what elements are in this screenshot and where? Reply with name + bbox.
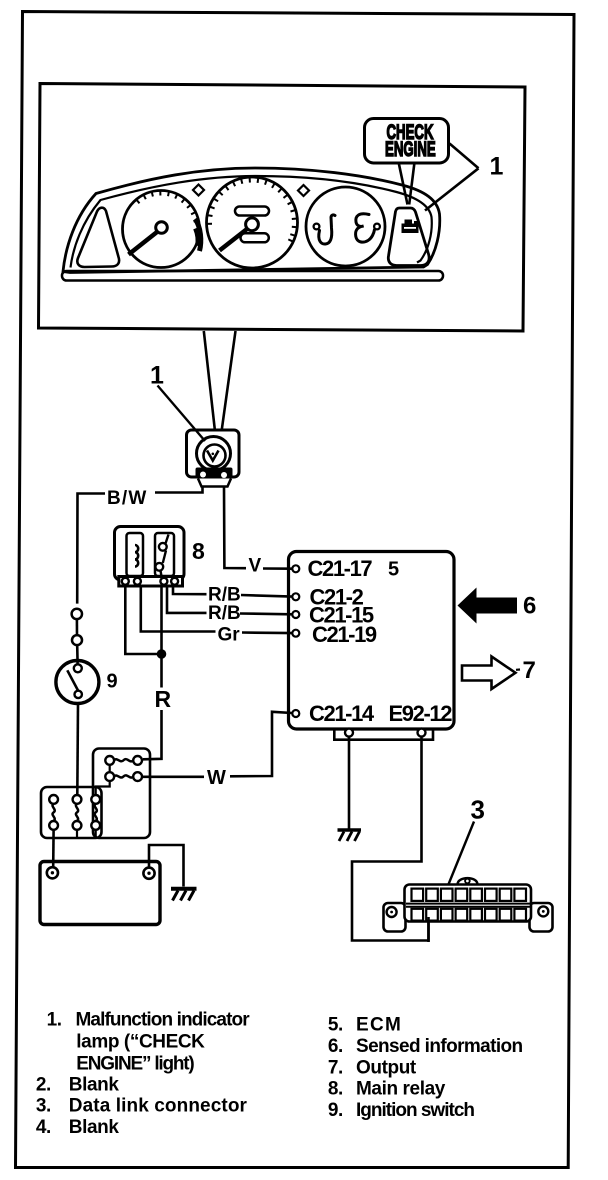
svg-text:Sensed information: Sensed information (356, 1036, 523, 1057)
svg-text:W: W (207, 767, 226, 789)
ground symbol (171, 887, 197, 891)
funnel from cluster box to lamp (204, 331, 215, 430)
svg-text:6: 6 (523, 593, 536, 620)
svg-text:1: 1 (150, 362, 164, 390)
wire ECM left terminal to ground (348, 737, 351, 829)
svg-text:7: 7 (523, 657, 536, 684)
cluster housing outer outline (63, 168, 440, 273)
wire lamp left to B/W (155, 487, 203, 493)
svg-text:Main relay: Main relay (356, 1079, 446, 1100)
svg-text:C21-17: C21-17 (308, 556, 373, 581)
wire switch to fusible link B (76, 704, 79, 796)
warning diamond right (298, 185, 309, 196)
lamp bulb (197, 437, 231, 471)
svg-text:3.: 3. (36, 1096, 51, 1117)
svg-text:8.: 8. (328, 1079, 343, 1100)
inline connector (72, 635, 82, 645)
WIRING2 (40, 552, 553, 943)
svg-text:5.: 5. (328, 1015, 343, 1036)
data link connector J1 (458, 878, 478, 884)
pin C21-2 (292, 593, 299, 600)
battery BT1 (40, 862, 160, 925)
CHECKLABEL (365, 119, 504, 211)
CLUSTER (62, 168, 443, 281)
svg-text:Ignition switch: Ignition switch (356, 1100, 474, 1121)
callout pointer legs (399, 164, 408, 205)
WIRING (56, 331, 292, 795)
svg-text:ENGINE” light): ENGINE” light) (76, 1054, 194, 1075)
svg-text:1.: 1. (47, 1010, 62, 1031)
svg-text:lamp (“CHECK: lamp (“CHECK (76, 1032, 205, 1053)
svg-text:1: 1 (490, 153, 504, 181)
svg-text:5: 5 (388, 559, 399, 581)
wire link B stub (76, 830, 78, 838)
svg-text:3: 3 (471, 795, 485, 825)
wire link C stub (95, 830, 97, 838)
ECM bottom flange (334, 729, 433, 740)
wire relay t2 to Gr (141, 586, 216, 632)
leader line lower to 1 (425, 168, 479, 210)
relay terminal flange (119, 577, 183, 587)
wire (76, 619, 79, 635)
wire Gr to pin C21-19 (242, 631, 292, 634)
fusible link box right (93, 749, 150, 839)
svg-text:2.: 2. (36, 1075, 51, 1096)
lamp socket (196, 468, 233, 479)
wire W to pin C21-14 (230, 712, 292, 777)
wire relay t3 through junction to R (160, 586, 163, 688)
tachometer needle (129, 232, 158, 255)
wire R to fusible link (143, 710, 162, 759)
LEGEND (36, 1010, 523, 1139)
svg-text:Blank: Blank (69, 1117, 120, 1138)
fuel band crescent (195, 219, 201, 251)
wire link A to battery (52, 830, 55, 867)
fuel icon (314, 224, 320, 230)
sensed information arrow (458, 588, 518, 624)
CHECK ENGINE callout box (365, 119, 449, 164)
svg-text:E92-12: E92-12 (389, 701, 453, 726)
fuel-temp gauge dial (306, 187, 385, 266)
svg-text:Output: Output (356, 1057, 417, 1078)
fusible link A (49, 795, 58, 804)
svg-text:7.: 7. (328, 1057, 343, 1078)
fusible link F1 (105, 756, 114, 765)
svg-text:Data link connector: Data link connector (69, 1096, 248, 1117)
malfunction indicator lamp U1 box (187, 430, 240, 477)
ECM U5 box (289, 552, 455, 730)
tachometer dial (123, 191, 200, 268)
svg-text:ECM: ECM (356, 1015, 402, 1036)
speedometer hub (246, 218, 259, 231)
svg-text:Gr: Gr (218, 625, 241, 646)
svg-text:9.: 9. (328, 1100, 343, 1121)
cluster housing inner outline (71, 176, 432, 268)
leader line upper to 1 (450, 144, 479, 169)
wire F1 to F2 (109, 765, 111, 772)
main relay K1 (115, 527, 185, 581)
speedometer needle (220, 229, 248, 251)
wire relay t3b to R/B (167, 586, 207, 613)
svg-text:C21-14: C21-14 (309, 701, 375, 726)
temp icon (356, 214, 375, 242)
warning diamond left (193, 185, 204, 196)
label 7 (516, 668, 520, 670)
wire relay t1 to junction (125, 586, 157, 654)
junction dot (157, 649, 167, 659)
cluster base strip (62, 271, 443, 281)
svg-text:R: R (155, 686, 172, 712)
leader 3 to connector (448, 822, 474, 886)
svg-text:C21-19: C21-19 (312, 622, 377, 647)
wire ECM right terminal to data link connector (352, 737, 429, 941)
svg-text:V: V (249, 556, 262, 577)
svg-text:9: 9 (107, 671, 118, 693)
svg-text:ENGINE: ENGINE (385, 137, 436, 161)
wire R/B to pin C21-2 (241, 595, 292, 597)
leader from 1 to lamp (158, 386, 206, 442)
svg-text:8: 8 (192, 538, 205, 564)
tachometer hub (156, 222, 168, 234)
check engine lamp panel (388, 208, 429, 266)
ground symbol (338, 828, 362, 832)
pin C21-17 (292, 565, 299, 572)
svg-text:Malfunction indicator: Malfunction indicator (76, 1010, 251, 1031)
wire F2 to link C (96, 781, 110, 795)
fusible link F2 (105, 772, 114, 781)
lamp filament (207, 451, 219, 461)
wire battery to ground (149, 845, 184, 887)
wire B/W to ignition switch (77, 494, 105, 604)
wire fusible link to W (142, 775, 204, 778)
svg-text:Blank: Blank (69, 1075, 120, 1096)
odometer windows (235, 207, 269, 216)
tachometer ticks (136, 191, 198, 222)
svg-text:B/W: B/W (107, 488, 148, 509)
speedometer ticks (207, 177, 298, 242)
svg-text:R/B: R/B (208, 603, 241, 624)
CHECK ENGINE text (385, 120, 436, 161)
fusible link B (73, 795, 82, 804)
wire R/B to pin C21-15 (240, 612, 292, 615)
left trapezoid panel (77, 208, 119, 267)
fusible link box left (41, 787, 102, 838)
pin C21-19 (292, 630, 299, 637)
svg-text:6.: 6. (328, 1036, 343, 1057)
wire lamp right down to V (224, 487, 246, 569)
ignition switch S1 (56, 661, 99, 704)
wire V to pin C21-17 (263, 567, 292, 570)
wire (76, 645, 79, 664)
wire entering connector (427, 917, 430, 942)
pin C21-14 (292, 710, 299, 717)
svg-text:4.: 4. (36, 1117, 51, 1138)
pin C21-15 (292, 611, 299, 618)
fusible link C (91, 795, 100, 804)
instrument cluster box (39, 84, 526, 332)
engine icon (402, 220, 419, 234)
inline connector (72, 609, 82, 619)
wire relay t4 to R/B (173, 586, 207, 594)
speedometer dial (207, 177, 298, 268)
output arrow (462, 657, 516, 690)
